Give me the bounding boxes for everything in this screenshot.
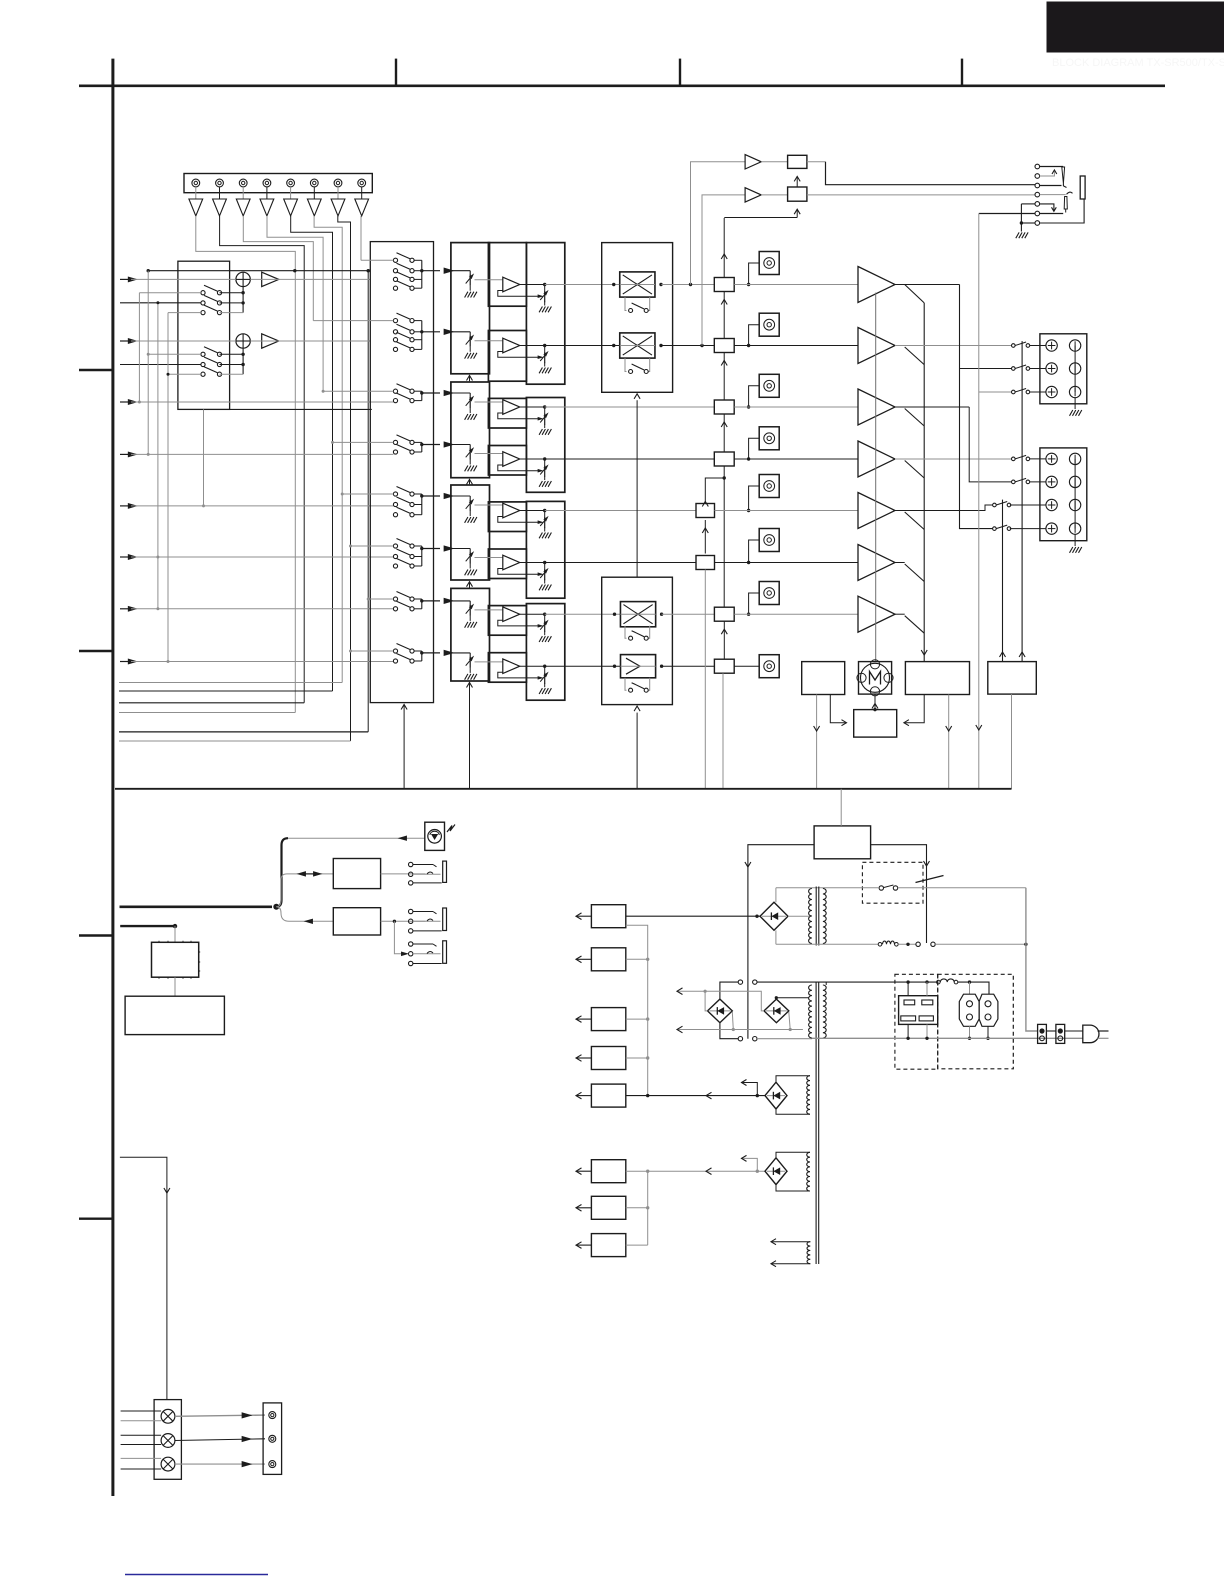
wire square to amp ch7	[734, 613, 858, 615]
wire bus to power box	[840, 789, 842, 826]
wire opamp out ch8	[520, 665, 545, 667]
mixer M1	[236, 272, 250, 286]
wire vr to opamp ch4	[475, 453, 503, 455]
lamp output arrows	[175, 1415, 265, 1416]
wire opamp out ch5	[520, 510, 545, 512]
input mixer box	[178, 261, 230, 409]
wire ch1 tape line	[148, 270, 370, 272]
winding W5	[807, 1242, 810, 1264]
terminal pin 2	[216, 179, 224, 187]
hp contact 2 wire	[1040, 171, 1055, 177]
mains fuse F1	[878, 943, 882, 947]
feedback loop ch6	[498, 569, 538, 575]
wire opamp out ch2	[520, 345, 545, 347]
pre-out jack ch3	[759, 374, 779, 397]
transformer T2 core	[815, 982, 817, 1264]
mute bypass switch ch1	[625, 297, 627, 310]
mute bypass switch ch7	[625, 626, 627, 638]
post-volume column	[526, 243, 564, 385]
selector output ch3	[422, 392, 440, 394]
wire display to FL	[174, 977, 176, 996]
op-amp box ch3	[488, 398, 526, 428]
wire power relay drive R	[871, 845, 927, 943]
wire REG1 input	[626, 915, 760, 917]
wire rec-out bus lines	[119, 682, 342, 684]
wire T2 primary top	[720, 982, 738, 999]
lamp box	[154, 1400, 181, 1480]
wire U10 to bus	[816, 695, 818, 789]
buffer amp T5	[290, 187, 292, 199]
wire main ch6 to mute/jack	[545, 562, 696, 564]
system control box U10	[802, 662, 845, 695]
op-amp U ch5	[503, 503, 520, 518]
level IC ch1	[714, 278, 734, 292]
wire T2 R top	[825, 982, 827, 985]
wire hp L out	[807, 161, 826, 163]
selector switches ch4	[393, 440, 397, 444]
buffer amp T8	[361, 187, 363, 199]
svg-text:BLOCK DIAGRAM TX-SR500/TX-SR50: BLOCK DIAGRAM TX-SR500/TX-SR500E	[1052, 57, 1224, 69]
volume attenuator VR ch3	[469, 393, 471, 398]
lamp L1	[161, 1409, 175, 1423]
wire tape bus 2	[220, 216, 305, 703]
mixer M2	[236, 334, 250, 348]
fuse holder 2	[1056, 1024, 1065, 1043]
wire U11 to motor drive	[905, 695, 924, 723]
wire vr to opamp ch5	[475, 504, 503, 506]
wire tape feed ch2	[313, 320, 393, 322]
power amp ch3	[858, 389, 895, 425]
wire hp tap ch2	[700, 344, 703, 347]
buffer amp T2	[219, 187, 221, 199]
wire mute out ch1	[661, 284, 714, 286]
level chain to bus B	[722, 673, 724, 789]
unswitched outlet 1	[959, 994, 979, 1026]
selector switches ch1	[393, 258, 397, 262]
hp ring contact	[1064, 197, 1067, 210]
wire tape bus 8	[360, 216, 362, 260]
wire hp tap ch1	[689, 283, 692, 286]
pre-out jack ch7	[759, 582, 779, 605]
speaker relay contact y458.9	[1012, 457, 1016, 461]
amp return diag ch1	[905, 285, 925, 303]
wire amp out ch2	[895, 345, 1012, 347]
wire to treble box	[276, 907, 333, 922]
mixer M2 source switches	[201, 352, 205, 356]
volume attenuator VR ch4	[469, 445, 471, 450]
amp return diag ch5	[905, 512, 925, 530]
regulator box REG3	[591, 1008, 625, 1031]
power amp ch7	[858, 596, 895, 632]
op-amp U ch8	[503, 659, 520, 674]
speaker relay contact y505.0	[993, 503, 997, 507]
wire amp out ch4	[895, 458, 1012, 460]
phones jack C	[409, 942, 413, 946]
regulator box REG2	[591, 948, 625, 971]
terminal pin 8	[358, 179, 366, 187]
frame tick x680	[679, 59, 681, 86]
footer link underline	[125, 1574, 268, 1576]
feedback loop ch7	[498, 620, 538, 626]
wire D3 tap	[775, 996, 778, 999]
wire vr to opamp ch6	[475, 557, 503, 559]
wire vr to opamp ch8	[475, 661, 503, 663]
selector output ch7	[422, 600, 440, 602]
power amp ch1	[858, 267, 895, 303]
lamp jack box	[263, 1403, 282, 1475]
input selector bank box	[370, 242, 433, 703]
wire left vertical B	[147, 271, 149, 455]
input arrow IN2	[120, 340, 131, 342]
wire W5 top	[771, 1241, 810, 1243]
terminal pin 3	[239, 179, 247, 187]
wire main ch5 to mute/jack	[545, 510, 696, 512]
speaker A feed vertical	[960, 285, 993, 529]
input arrow IN8	[120, 661, 131, 663]
unswitched outlet 2	[979, 994, 998, 1026]
feedback loop ch4	[498, 465, 538, 471]
wire main ch2 to mute/jack	[545, 345, 620, 347]
terminal pin 1	[192, 179, 200, 187]
wire tape bus 5	[291, 216, 333, 691]
input arrow IN5	[120, 505, 131, 507]
amp return diag ch4	[905, 461, 925, 479]
dashed box AC outlets B	[938, 974, 1014, 1069]
standby switch dashed box	[862, 862, 923, 903]
standby power box	[814, 826, 871, 859]
wire jack stub ch8	[734, 665, 759, 667]
mute relay ch8	[621, 655, 656, 678]
dashed box AC outlets A	[895, 974, 938, 1069]
volume attenuator VR ch8	[469, 653, 471, 658]
speaker relay contact y392.0	[1012, 390, 1016, 394]
volume attenuator VR ch6	[469, 549, 471, 554]
outlet fuse F2	[937, 980, 941, 984]
transformer T1 core	[815, 887, 817, 946]
display IC	[152, 942, 199, 977]
wire opamp out ch6	[520, 562, 545, 564]
op-amp U ch3	[503, 400, 520, 415]
wire left vertical A	[138, 293, 140, 402]
front display box	[125, 996, 224, 1034]
lamp input wires	[121, 1410, 162, 1412]
page frame horizontal rule	[79, 85, 1165, 88]
wire jack stub ch6	[749, 540, 760, 563]
hp buffer R	[745, 188, 761, 202]
wire D2 output A	[677, 990, 705, 992]
wire square to amp ch6	[715, 562, 859, 564]
level control chain	[723, 218, 725, 278]
wire main ch7 to mute/jack	[545, 613, 621, 615]
feedback loop ch3	[498, 413, 538, 419]
level IC ch5	[696, 504, 715, 518]
bridge D4 riser	[741, 1083, 757, 1096]
switched outlet block	[899, 996, 938, 1025]
selector output ch1	[422, 270, 440, 272]
wire opamp out ch1	[520, 284, 545, 286]
wire jack stub ch1	[749, 263, 760, 285]
pre-out jack ch6	[759, 529, 779, 552]
level IC ch7	[714, 607, 734, 621]
wire tape bus 1	[196, 216, 295, 713]
wire power relay drive L	[748, 845, 814, 1039]
post attenuator ch7	[544, 614, 546, 621]
frame tick x962	[961, 59, 963, 86]
hp contact 1 wire	[1040, 166, 1064, 168]
frame tick left y651	[79, 650, 113, 652]
hp tip contact	[1062, 167, 1065, 184]
wire main ch1 to mute/jack	[545, 284, 620, 286]
terminal pin 5	[287, 179, 295, 187]
wire amp out ch6	[895, 562, 905, 564]
motor drive box U13	[854, 710, 897, 738]
title block (redacted)	[1047, 2, 1224, 52]
post attenuator ch1	[544, 285, 546, 292]
lamp L2	[161, 1434, 175, 1448]
regulator output arrow REG4	[577, 1057, 592, 1059]
post attenuator ch2	[544, 346, 546, 353]
protection box U11	[905, 662, 969, 695]
op-amp U ch6	[503, 555, 520, 570]
pre-out jack ch4	[759, 427, 779, 450]
winding W4	[807, 1152, 810, 1191]
terminal pin 6	[310, 179, 318, 187]
headphone jack contacts	[1035, 164, 1040, 169]
phones jack A	[409, 862, 413, 866]
wire opamp out ch7	[520, 613, 545, 615]
hp contact 6 wire	[979, 213, 1035, 215]
wire outlets A	[907, 982, 909, 996]
input arrow IN4	[120, 453, 131, 455]
volume attenuator VR ch7	[469, 601, 471, 606]
wire vr to opamp ch3	[475, 401, 503, 403]
wire tape feed ch8	[351, 650, 394, 652]
volume attenuator VR ch2	[469, 332, 471, 337]
amp return diag ch7	[905, 616, 925, 634]
regulator output arrow REG3	[577, 1018, 592, 1020]
regulator output arrow REG1	[577, 915, 592, 917]
wire mute out ch2	[661, 345, 714, 347]
volume control arrow from bus	[469, 683, 471, 789]
speaker A ground	[1074, 398, 1076, 409]
mute bypass switch ch8	[625, 678, 627, 690]
post attenuator ch5	[544, 511, 546, 518]
buffer amp T4	[266, 187, 268, 199]
op-amp box ch7	[488, 606, 526, 636]
feedback loop ch8	[498, 672, 538, 678]
op-amp U ch2	[503, 338, 520, 353]
wire left vertical C	[157, 303, 159, 609]
selector switches ch5	[393, 492, 397, 496]
zone line vertical	[978, 214, 980, 393]
regulator output arrow REG8	[577, 1244, 592, 1246]
wire W5 bottom	[771, 1263, 810, 1265]
hp contact 3 wire	[1040, 185, 1062, 187]
wire jack stub ch7	[749, 593, 760, 614]
regulator box REG8	[591, 1234, 625, 1257]
speaker relay bar B	[1002, 500, 1004, 662]
mute relay ch1	[620, 272, 655, 297]
wire hp R out	[807, 194, 1035, 196]
volume attenuator VR ch1	[469, 271, 471, 276]
regulator box REG1	[591, 905, 625, 928]
post attenuator ch3	[544, 407, 546, 414]
system control bus	[115, 788, 1012, 790]
motor link arrow	[447, 825, 455, 833]
regulator box REG7	[591, 1196, 625, 1219]
pre-out jack ch2	[759, 313, 779, 336]
wire tape bus 7	[338, 216, 351, 741]
hp buffer L	[745, 155, 761, 169]
selector output ch4	[422, 444, 440, 446]
selector output ch8	[422, 652, 440, 654]
bidirectional arrow	[297, 871, 306, 876]
pre-out jack ch5	[759, 475, 779, 498]
selector switches ch3	[393, 389, 397, 393]
buffer amp T3	[242, 187, 244, 199]
mute control upper	[636, 400, 638, 577]
phones jack B	[409, 909, 413, 913]
relay driver box U12	[988, 662, 1037, 695]
level IC ch6	[696, 556, 715, 570]
volume block column	[451, 243, 490, 374]
wire amp out ch1	[895, 284, 960, 286]
level IC ch2	[714, 339, 734, 353]
wire left vertical D	[167, 313, 169, 662]
wire D1 ac top	[775, 888, 777, 902]
bridge rectifier D1	[760, 902, 788, 930]
feedback loop ch5	[498, 517, 538, 523]
wire opamp out ch3	[520, 406, 545, 408]
wire outlets B	[969, 1026, 971, 1038]
tone box B	[333, 908, 380, 935]
wire vr to opamp ch1	[475, 279, 503, 281]
level chain to bus A	[704, 570, 706, 789]
op-amp box ch5	[488, 502, 526, 532]
wire tape feed ch3	[323, 390, 393, 392]
mute control lower	[636, 713, 638, 789]
selector bank control	[403, 706, 405, 789]
wire lamp feed	[120, 1157, 167, 1399]
hp jack sleeve	[1080, 176, 1085, 199]
transformer T2 winding L	[809, 985, 812, 1038]
input arrow IN3	[120, 401, 131, 403]
hp contact 7 wire	[1021, 222, 1035, 224]
level chain jog ch4-ch5	[705, 466, 724, 504]
speaker relay contact y481.9	[1012, 480, 1016, 484]
input arrow IN6	[120, 556, 131, 558]
terminal pin 4	[263, 179, 271, 187]
selector output ch2	[422, 331, 440, 333]
speaker B feed vertical	[969, 407, 1011, 482]
bridge D5 riser	[741, 1158, 757, 1171]
power switch contacts	[916, 942, 920, 946]
wire amp out ch3	[895, 406, 969, 408]
AC line upper	[776, 887, 879, 889]
level IC ch4	[714, 452, 734, 466]
muting box upper	[602, 243, 673, 393]
wire tape feed ch5	[342, 493, 393, 495]
wire amp out ch5	[895, 505, 993, 511]
terminal pin 7	[334, 179, 342, 187]
speaker B ground	[1074, 534, 1076, 546]
level IC ch3	[714, 400, 734, 414]
transformer T1 secondary	[809, 889, 812, 944]
wire opamp out ch4	[520, 458, 545, 460]
wire square to amp ch4	[734, 458, 858, 460]
op-amp U ch7	[503, 607, 520, 622]
tape terminal strip CN1	[184, 174, 372, 193]
wire T2 primary bottom	[720, 1022, 738, 1038]
wire jack stub ch4	[749, 438, 760, 459]
level chain ch4-ch7	[723, 476, 726, 479]
op-amp box ch1	[488, 243, 526, 307]
regulator output arrow REG7	[577, 1207, 592, 1209]
wire tone B to jacks	[381, 920, 426, 922]
wire REG6 input	[648, 1170, 766, 1172]
wire jack B to jack C	[394, 921, 402, 954]
wire tape feed ch7	[368, 598, 393, 600]
hp contact 5 wire	[1021, 203, 1035, 205]
buffer B1	[262, 272, 279, 286]
regulator output arrow REG5	[577, 1095, 592, 1097]
wire U10 to motor drive	[830, 695, 845, 723]
buffer B2	[262, 334, 279, 348]
lamp L3	[161, 1457, 175, 1471]
wire main ch8 to mute/jack	[545, 665, 621, 667]
regulator box REG5	[591, 1084, 625, 1107]
transformer T1 primary	[823, 889, 826, 944]
hp level box L	[761, 161, 787, 163]
AC hot line right	[1026, 888, 1038, 1031]
wire jack stub ch2	[749, 325, 760, 346]
pre-out jack ch1	[759, 252, 779, 275]
feedback loop ch2	[498, 352, 538, 358]
wire vr to opamp ch2	[475, 340, 503, 342]
volume control arrow	[469, 376, 471, 382]
selector switches ch7	[393, 597, 397, 601]
volume control arrow	[469, 479, 471, 484]
buffer amp T7	[337, 187, 339, 199]
page frame vertical rule	[111, 59, 114, 1496]
regulator output arrow REG2	[577, 958, 592, 960]
wire mute out ch8	[662, 665, 715, 667]
speaker relay bar A	[1021, 341, 1023, 661]
relay contacts T2 primary	[738, 980, 742, 984]
speaker relay contact y345.5	[1012, 344, 1016, 348]
frame tick x396	[395, 59, 397, 86]
selector output ch6	[422, 548, 440, 550]
op-amp box ch2	[488, 331, 526, 382]
power amp ch6	[858, 545, 895, 581]
wire main ch3 to mute/jack	[545, 406, 715, 408]
wire amp out ch7	[895, 613, 905, 615]
bridge rectifier D3	[764, 999, 789, 1023]
regulator bus group2	[647, 1171, 649, 1245]
wire mixer feeds	[139, 292, 201, 294]
amp bias chain	[875, 293, 877, 662]
speaker terminals B	[1040, 448, 1087, 541]
wire mute out ch7	[662, 613, 715, 615]
amp return diag ch6	[905, 564, 925, 582]
AC line lower	[776, 943, 878, 945]
level IC ch8	[714, 659, 734, 673]
input arrow IN1	[120, 278, 131, 280]
bridge rectifier D5	[765, 1158, 787, 1185]
feedback loop ch1	[498, 291, 538, 297]
AC outlet feed	[906, 980, 909, 983]
wire to volume pot	[276, 838, 288, 907]
